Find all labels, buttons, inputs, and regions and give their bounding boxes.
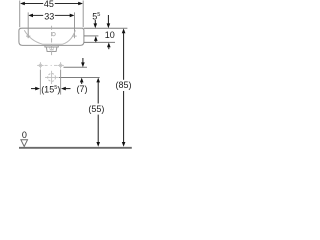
right profile line y36 xyxy=(84,35,98,37)
datum triangle xyxy=(21,140,28,147)
profile line y77.5 xyxy=(59,77,100,79)
fixing hole cross left xyxy=(37,62,43,68)
dim 15.5 ext line right xyxy=(60,70,62,95)
bolt cross left xyxy=(26,34,30,38)
svg-text:33: 33 xyxy=(44,12,54,22)
svg-text:(155): (155) xyxy=(41,84,60,94)
tap hole circle xyxy=(52,32,55,35)
extension line right 45 xyxy=(82,1,84,28)
dim 15.5 right arrow xyxy=(61,87,71,91)
dim (85) line with arrows xyxy=(122,28,126,146)
drain flange xyxy=(45,46,58,47)
basin bowl curve xyxy=(24,30,75,44)
dim 5.5 lower arrow xyxy=(94,36,98,42)
drain body xyxy=(46,47,57,52)
svg-text:10: 10 xyxy=(105,30,115,40)
dimension 33 right arrow xyxy=(70,14,75,18)
drain pipe walls xyxy=(50,47,54,49)
svg-text:(55): (55) xyxy=(88,104,104,114)
basin outline xyxy=(19,28,84,45)
svg-text:45: 45 xyxy=(44,0,54,9)
dim 7 upper arrow xyxy=(81,58,85,67)
extension line right 33 xyxy=(74,12,76,38)
drain centerline cross xyxy=(50,49,54,51)
drain circle cross xyxy=(45,71,58,84)
dim 15.5 ext line left xyxy=(39,70,41,95)
right profile line y42.5 xyxy=(84,41,115,43)
dim (55) line with arrows xyxy=(96,78,100,147)
extension line left 45 xyxy=(19,1,21,28)
svg-text:(85): (85) xyxy=(115,80,131,90)
dim 7 lower arrow xyxy=(80,78,84,84)
right profile line top (y28) xyxy=(84,27,127,29)
drain circle dashed xyxy=(48,74,56,82)
dim 15.5 left arrow xyxy=(31,87,40,91)
bolt cross right xyxy=(72,34,76,38)
profile line y67 xyxy=(64,66,88,68)
dimension 33 line xyxy=(33,14,71,16)
dimension 45 line xyxy=(24,3,79,5)
svg-text:(7): (7) xyxy=(77,84,88,94)
fixing hole cross right xyxy=(57,62,63,68)
dim 10 upper arrow xyxy=(107,15,111,28)
dim 5.5 upper arrow xyxy=(94,20,98,28)
fixing holes centerline dashed xyxy=(45,64,57,66)
dim 10 lower arrow xyxy=(107,43,111,50)
extension line left 33 xyxy=(27,12,29,38)
dimension 45 left arrow xyxy=(20,2,25,6)
floor line xyxy=(19,147,132,149)
dimension 45 right arrow xyxy=(78,2,83,6)
centerline vertical dashed xyxy=(51,26,53,57)
dimension 33 left arrow xyxy=(28,14,33,18)
svg-text:0: 0 xyxy=(22,130,27,140)
